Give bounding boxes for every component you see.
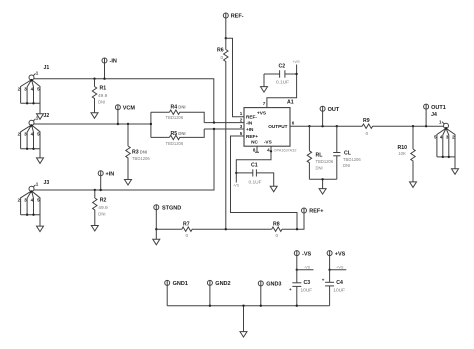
svg-text:DNI: DNI	[98, 211, 105, 216]
svg-text:0: 0	[186, 233, 189, 239]
svg-text:GND2: GND2	[215, 281, 230, 287]
svg-text:OUTPUT: OUTPUT	[268, 124, 287, 129]
svg-text:+: +	[289, 287, 292, 292]
svg-text:VCM: VCM	[123, 106, 136, 112]
svg-text:10UF: 10UF	[301, 287, 313, 293]
svg-text:C1: C1	[251, 163, 258, 169]
svg-text:+VS: +VS	[257, 111, 266, 116]
svg-text:DNI: DNI	[343, 163, 350, 168]
svg-text:0: 0	[276, 233, 279, 239]
svg-text:R7: R7	[183, 221, 190, 227]
svg-text:DNI: DNI	[98, 99, 105, 104]
svg-text:0: 0	[221, 55, 224, 61]
svg-text:DNI: DNI	[316, 165, 323, 170]
svg-text:+IN: +IN	[106, 171, 115, 177]
svg-text:R1: R1	[100, 85, 107, 91]
svg-text:RL: RL	[316, 153, 324, 159]
svg-text:C2: C2	[279, 64, 286, 70]
svg-text:-IN: -IN	[246, 121, 253, 126]
svg-text:+IN: +IN	[246, 127, 254, 132]
svg-text:TBD1206: TBD1206	[166, 115, 184, 120]
svg-text:10K: 10K	[398, 151, 406, 156]
svg-text:NC: NC	[251, 140, 258, 145]
svg-text:-VS: -VS	[304, 265, 311, 269]
svg-text:TBD1206: TBD1206	[166, 141, 184, 146]
svg-text:J2: J2	[44, 113, 50, 119]
svg-text:GND1: GND1	[173, 281, 188, 287]
svg-text:TBD1206: TBD1206	[316, 159, 334, 164]
svg-text:OUT: OUT	[328, 107, 340, 113]
svg-text:0.1UF: 0.1UF	[276, 80, 289, 86]
svg-text:49.9: 49.9	[98, 205, 108, 211]
svg-text:0.1UF: 0.1UF	[249, 180, 262, 186]
svg-text:+VS: +VS	[336, 265, 344, 269]
svg-text:0: 0	[366, 131, 369, 137]
svg-text:CL: CL	[344, 151, 352, 157]
svg-text:+VS: +VS	[335, 251, 346, 257]
svg-text:-IN: -IN	[110, 59, 117, 65]
svg-text:+: +	[322, 277, 325, 282]
svg-text:OPA1637A32: OPA1637A32	[274, 148, 297, 152]
svg-text:J4: J4	[431, 112, 437, 118]
svg-text:-VS: -VS	[264, 140, 272, 145]
svg-text:J1: J1	[44, 65, 50, 71]
svg-text:R9: R9	[363, 118, 370, 124]
svg-text:GND3: GND3	[266, 282, 281, 288]
svg-text:-VS: -VS	[302, 251, 312, 257]
svg-text:A1: A1	[287, 100, 294, 106]
svg-text:+VS: +VS	[292, 60, 300, 64]
svg-text:49.9: 49.9	[98, 93, 108, 99]
svg-text:REF+: REF+	[309, 209, 323, 215]
svg-text:REF-: REF-	[231, 14, 244, 20]
svg-text:R6: R6	[217, 48, 224, 54]
svg-text:10UF: 10UF	[333, 287, 345, 293]
svg-text:TBD1206: TBD1206	[132, 156, 150, 161]
svg-text:J3: J3	[44, 180, 50, 186]
svg-text:REF+: REF+	[246, 134, 258, 139]
svg-text:STGND: STGND	[162, 206, 181, 212]
svg-text:TBD1206: TBD1206	[343, 157, 361, 162]
svg-text:-VS: -VS	[233, 184, 240, 188]
svg-text:R2: R2	[100, 197, 107, 203]
svg-text:R8: R8	[273, 221, 280, 227]
svg-text:C4: C4	[336, 280, 343, 286]
svg-text:C3: C3	[304, 280, 311, 286]
svg-text:REF-: REF-	[246, 115, 257, 120]
svg-text:OUT1: OUT1	[431, 105, 446, 111]
